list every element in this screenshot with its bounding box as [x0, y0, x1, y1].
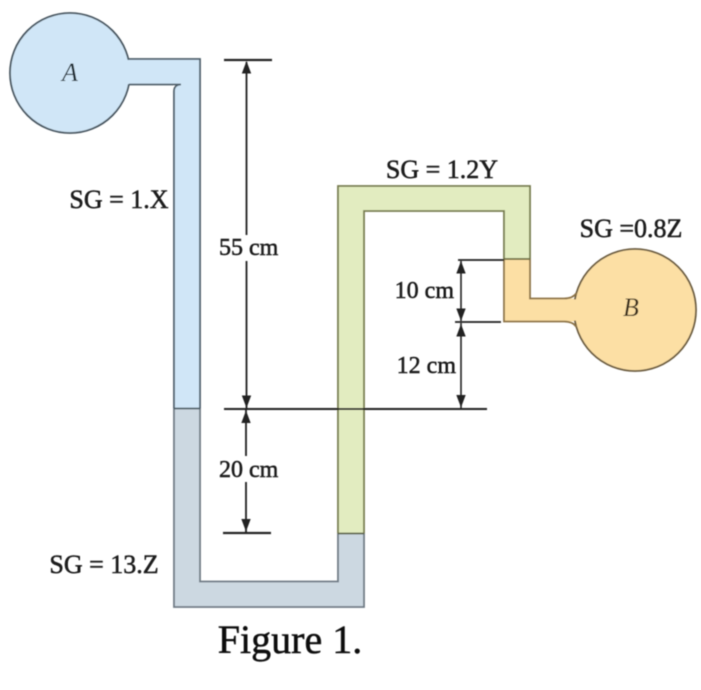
interface line green/orange	[504, 258, 530, 260]
svg-text:cm: cm	[249, 457, 279, 483]
svg-text:10 cm: 10 cm	[395, 278, 455, 304]
dimension 20 cm: arrow up	[241, 411, 250, 424]
tank A	[10, 13, 130, 133]
tube wall: inner wall from A with fillet	[129, 85, 181, 409]
dimension 20 cm: arrow down	[241, 519, 250, 532]
white outside of fillet at A junction	[174, 85, 181, 92]
fluid SG=1.X (blue) in tube from tank A	[118, 59, 200, 85]
mercury SG=13.Z (gray) in U-tube	[174, 409, 200, 608]
dimension 12 cm: arrow up	[456, 324, 465, 337]
tube wall: orange section to tank B, top wall	[530, 259, 577, 299]
dimension 12 cm: arrow down	[456, 395, 465, 408]
svg-text:A: A	[60, 58, 78, 87]
svg-text:cm: cm	[249, 235, 279, 261]
dimension 55 cm: top tick	[224, 59, 272, 61]
dimension 20 cm: line lower	[245, 482, 247, 532]
tube wall: A horizontal+left vertical (outer), blue section	[128, 59, 200, 409]
tube wall: U-tube gray section outer	[174, 409, 364, 608]
dimension 10 cm: arrow up	[456, 261, 465, 274]
interface line green/mercury	[338, 533, 364, 535]
svg-text:12 cm: 12 cm	[397, 353, 457, 379]
svg-text:55: 55	[219, 235, 243, 261]
svg-text:B: B	[623, 293, 639, 322]
tube wall: U-tube gray section inner	[200, 409, 338, 582]
fluid SG=0.8Z (orange) in tube to tank B	[504, 259, 530, 322]
dimension 55 cm: line lower	[246, 261, 248, 408]
svg-text:SG = 1.2Y: SG = 1.2Y	[386, 155, 498, 184]
svg-text:Figure 1.: Figure 1.	[218, 617, 362, 662]
dimension 55 cm: arrow up	[242, 61, 251, 74]
tube wall: green inverted-U outer	[338, 186, 530, 534]
fluid SG=1.2Y (green) in inverted-U tube	[338, 186, 364, 534]
svg-text:SG =0.8Z: SG =0.8Z	[580, 214, 683, 243]
svg-text:SG = 1.X: SG = 1.X	[69, 185, 168, 214]
dimension 20 cm: bottom tick	[223, 532, 271, 534]
dimension 10 cm: arrow down	[456, 309, 465, 322]
dimension 12 cm: line	[460, 323, 462, 408]
reference line	[224, 408, 487, 410]
dimension 10 cm: line	[460, 261, 462, 321]
interface line blue/mercury	[174, 408, 200, 410]
tube wall: orange section to tank B, bottom wall	[504, 259, 577, 327]
dimension 55 cm: arrow down	[242, 396, 251, 409]
tank B	[574, 249, 696, 371]
dimension 55 cm: line upper	[246, 62, 248, 235]
tick between 10 and 12 cm	[455, 321, 501, 323]
svg-text:SG = 13.Z: SG = 13.Z	[49, 550, 158, 579]
dimension 10 cm: top tick	[458, 259, 504, 261]
svg-text:20: 20	[219, 457, 243, 483]
tube wall: green inverted-U inner	[364, 211, 504, 534]
dimension 20 cm: line upper	[245, 410, 247, 456]
